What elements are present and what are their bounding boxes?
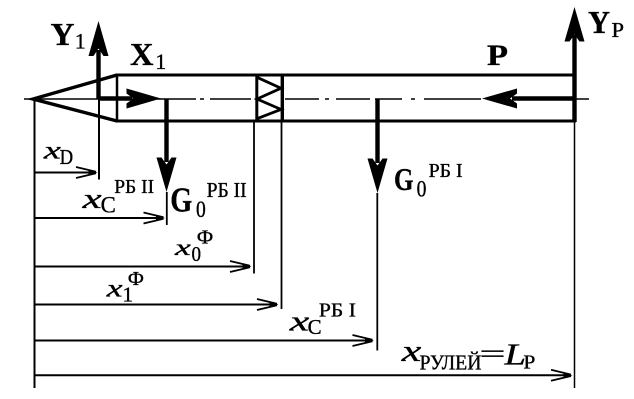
svg-text:x: x bbox=[400, 333, 421, 368]
interstage truss lattice bbox=[257, 77, 281, 118]
svg-text:P: P bbox=[612, 18, 625, 42]
dimension line x1F bbox=[34, 299, 279, 310]
force arrow YP (at rudders, pointing up) bbox=[565, 7, 585, 122]
body bottom wall bbox=[116, 120, 576, 123]
extension line below YP / body right edge bbox=[574, 122, 576, 388]
left datum extension line bbox=[34, 100, 36, 388]
svg-text:Y: Y bbox=[51, 16, 75, 52]
force arrow X1 bbox=[99, 89, 162, 109]
svg-text:Y: Y bbox=[588, 4, 610, 40]
svg-text:Ф: Ф bbox=[128, 268, 144, 290]
interstage truss left frame bbox=[255, 74, 258, 123]
extension line below G0 RBI bbox=[376, 193, 378, 351]
extension line at truss left x0F bbox=[253, 122, 255, 274]
force arrow Y1 bbox=[89, 21, 109, 99]
label Y1 bbox=[51, 16, 86, 54]
svg-text:0: 0 bbox=[417, 176, 427, 202]
svg-text:x: x bbox=[105, 276, 122, 303]
label xC RBII bbox=[81, 176, 154, 218]
svg-text:x: x bbox=[173, 235, 192, 260]
label x1F bbox=[105, 268, 144, 307]
label xD bbox=[42, 136, 73, 170]
extension line below G0 RBII bbox=[166, 192, 168, 225]
label G0 RBII bbox=[170, 178, 246, 223]
svg-text:P: P bbox=[487, 40, 508, 72]
svg-text:РБ II: РБ II bbox=[114, 176, 154, 198]
body top wall bbox=[116, 74, 576, 77]
weight arrow G0 RBII bbox=[157, 99, 177, 192]
extension line below Y1 origin bbox=[98, 99, 100, 180]
svg-text:G: G bbox=[170, 181, 192, 220]
svg-text:РБ I: РБ I bbox=[319, 300, 356, 322]
extension line at truss right x1F bbox=[281, 122, 283, 309]
nose cone bbox=[33, 75, 117, 121]
svg-text:РБ I: РБ I bbox=[429, 160, 463, 182]
dimension line xC RBII bbox=[34, 213, 166, 224]
dimension line xD bbox=[34, 167, 98, 178]
centerline (dash-dot axis) bbox=[24, 98, 589, 100]
dimension line xC RBI bbox=[34, 335, 375, 346]
front bulkhead bbox=[116, 74, 119, 123]
svg-text:=: = bbox=[480, 341, 506, 368]
dimension line xRULEI = LP bbox=[34, 370, 573, 381]
label YP bbox=[588, 4, 624, 42]
svg-text:0: 0 bbox=[196, 197, 206, 223]
label x0F bbox=[173, 227, 213, 265]
svg-text:Р: Р bbox=[523, 352, 535, 374]
svg-text:РБ II: РБ II bbox=[207, 178, 247, 202]
label X1 bbox=[130, 36, 166, 74]
svg-text:x: x bbox=[81, 184, 102, 215]
svg-text:1: 1 bbox=[75, 29, 86, 54]
svg-text:x: x bbox=[288, 307, 310, 338]
label xRULEI = LP bbox=[400, 333, 535, 375]
force arrow P (thrust, pointing left) bbox=[482, 89, 575, 109]
dimension line x0F bbox=[34, 261, 252, 272]
interstage truss right frame bbox=[281, 74, 284, 123]
svg-text:D: D bbox=[60, 145, 74, 169]
label G0 RBI bbox=[394, 160, 463, 202]
svg-text:РУЛЕЙ: РУЛЕЙ bbox=[420, 350, 482, 374]
label xC RBI bbox=[288, 300, 356, 339]
weight arrow G0 RBI bbox=[368, 99, 388, 193]
svg-text:Ф: Ф bbox=[197, 227, 214, 248]
svg-text:G: G bbox=[394, 162, 414, 197]
svg-text:1: 1 bbox=[155, 49, 166, 74]
svg-text:X: X bbox=[130, 36, 154, 72]
